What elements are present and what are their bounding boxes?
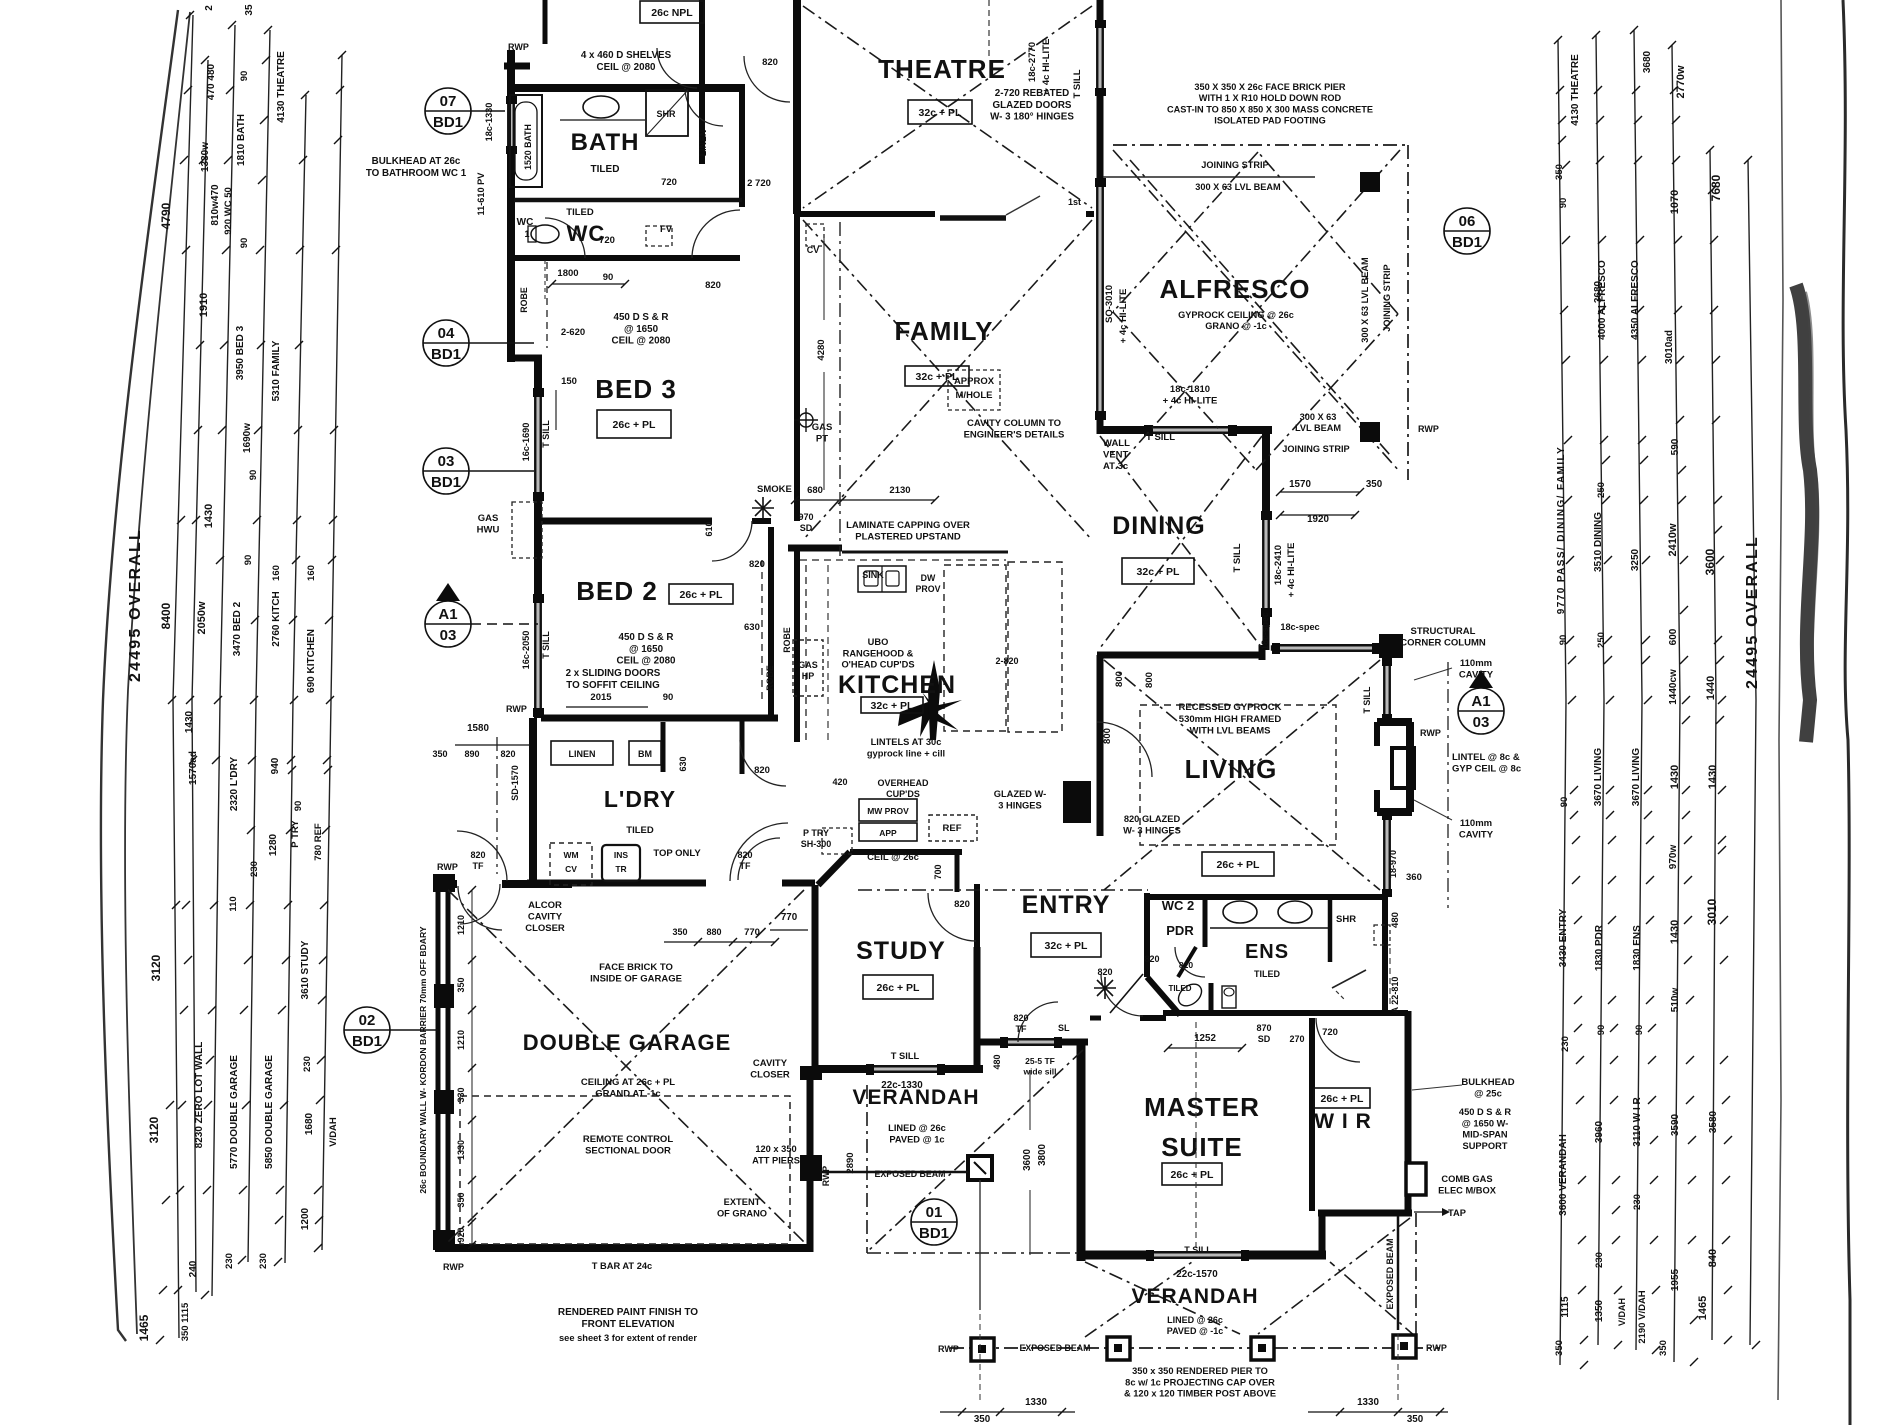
svg-text:ROBE: ROBE [519, 287, 529, 313]
svg-text:26c + PL: 26c + PL [613, 419, 656, 431]
gas pt marker family [799, 413, 813, 427]
svg-text:EXPOSED BEAM: EXPOSED BEAM [875, 1169, 946, 1179]
dimension ticks right [1554, 36, 1562, 44]
window end block [1241, 1250, 1249, 1261]
ceiling line [1104, 660, 1380, 890]
svg-text:SINK: SINK [862, 570, 884, 580]
svg-text:EXPOSED BEAM: EXPOSED BEAM [1385, 1239, 1395, 1310]
FV dashed box [646, 226, 672, 246]
window end block [533, 492, 544, 501]
svg-text:90: 90 [248, 470, 259, 481]
wall ldry south front b [782, 880, 815, 887]
svg-text:03: 03 [440, 627, 457, 644]
svg-text:W- 3 HINGES: W- 3 HINGES [1123, 825, 1181, 835]
svg-text:WC: WC [517, 217, 534, 228]
svg-text:TF: TF [740, 861, 751, 871]
svg-text:3800: 3800 [1037, 1144, 1048, 1166]
ceiling line [448, 890, 804, 1242]
dimension ticks left [186, 11, 194, 19]
wall ens east [1382, 893, 1388, 1013]
svg-text:@ 1650: @ 1650 [629, 644, 664, 655]
front verandah west edge [866, 1085, 868, 1253]
wall linen west [699, 0, 705, 164]
svg-text:2-620: 2-620 [561, 327, 585, 338]
svg-text:1430: 1430 [1669, 920, 1681, 944]
svg-text:610: 610 [704, 521, 714, 536]
svg-text:WM: WM [563, 850, 578, 860]
svg-text:230: 230 [224, 1253, 235, 1269]
exposed beam front [820, 1171, 968, 1174]
svg-text:RWP: RWP [938, 1344, 959, 1354]
svg-text:OVERHEAD: OVERHEAD [877, 778, 929, 788]
ceiling label theatre [908, 100, 972, 124]
svg-text:530mm HIGH FRAMED: 530mm HIGH FRAMED [1179, 714, 1282, 725]
REF dashed box [929, 815, 977, 841]
svg-text:2-820: 2-820 [995, 656, 1018, 666]
svg-text:& 120 x 120 TIMBER POST ABOVE: & 120 x 120 TIMBER POST ABOVE [1124, 1389, 1276, 1399]
svg-text:SHR: SHR [1336, 914, 1356, 925]
svg-text:P TRY: P TRY [803, 828, 829, 838]
svg-text:1465: 1465 [137, 1314, 151, 1341]
dimension line right R5 [1710, 150, 1716, 1340]
svg-text:26c + PL: 26c + PL [1217, 859, 1260, 871]
svg-text:LVL BEAM: LVL BEAM [1295, 423, 1341, 433]
svg-text:2 720: 2 720 [747, 178, 771, 189]
front verandah pier [974, 1162, 986, 1174]
wall divider stub east [1086, 211, 1098, 217]
svg-text:3600 VERANDAH: 3600 VERANDAH [1558, 1134, 1569, 1216]
svg-text:RWP: RWP [1426, 1343, 1447, 1353]
detail bubble 04/BD1 [423, 320, 469, 366]
ceiling line [1085, 1262, 1240, 1334]
svg-text:TO BATHROOM WC 1: TO BATHROOM WC 1 [366, 168, 467, 179]
svg-text:BD1: BD1 [431, 474, 461, 491]
wall ldry west [529, 718, 537, 883]
svg-text:3430 ENTRY: 3430 ENTRY [1558, 908, 1569, 967]
wall ldry closet divider [661, 722, 666, 772]
ceiling line [1258, 152, 1398, 314]
door entry front [1018, 1002, 1058, 1042]
ceiling line [858, 889, 1148, 891]
window 18c-spec living north-east [1272, 644, 1378, 646]
alfresco pier NE [1360, 422, 1380, 442]
kitchen island dashed [944, 565, 1006, 731]
dimension line left L5 [285, 95, 306, 1263]
svg-text:450 D S & R: 450 D S & R [1459, 1107, 1511, 1117]
svg-text:240: 240 [188, 1260, 199, 1277]
svg-text:CV: CV [565, 864, 577, 874]
svg-text:870: 870 [1256, 1023, 1271, 1033]
svg-text:3250: 3250 [1630, 548, 1641, 571]
ceiling line [1258, 1218, 1410, 1334]
svg-text:03: 03 [1473, 714, 1490, 731]
ceiling label kitchen [861, 697, 923, 713]
svg-text:5310 FAMILY: 5310 FAMILY [271, 340, 282, 401]
svg-text:RWP: RWP [437, 862, 458, 872]
svg-text:DW: DW [921, 573, 936, 583]
svg-text:7680: 7680 [1709, 174, 1723, 201]
svg-text:RWP: RWP [1420, 728, 1441, 738]
svg-text:PDR: PDR [1166, 923, 1194, 938]
svg-text:CAST-IN TO 850 X 850 X 300 MAS: CAST-IN TO 850 X 850 X 300 MASS CONCRETE [1167, 104, 1373, 114]
svg-text:18c-1330: 18c-1330 [484, 103, 494, 142]
svg-text:820: 820 [1013, 1013, 1028, 1023]
svg-text:350: 350 [1554, 164, 1565, 180]
wall pdr diagonal [1147, 977, 1180, 1015]
svg-text:2410w: 2410w [1667, 523, 1679, 556]
svg-text:2760 KITCH: 2760 KITCH [271, 591, 282, 647]
svg-text:90: 90 [293, 801, 304, 812]
svg-text:1910: 1910 [198, 293, 210, 317]
svg-text:PT: PT [816, 434, 828, 445]
detail bubble 07/BD1 [425, 88, 471, 134]
window end block [506, 146, 517, 154]
svg-text:470 480: 470 480 [206, 63, 217, 100]
window end block [1228, 425, 1237, 436]
svg-text:250: 250 [1596, 632, 1607, 648]
svg-text:EXTENT: EXTENT [724, 1197, 761, 1207]
svg-text:18c-spec: 18c-spec [1260, 612, 1270, 650]
svg-text:3600: 3600 [1703, 548, 1717, 575]
svg-text:BED 2: BED 2 [576, 576, 658, 606]
windows [506, 100, 516, 150]
svg-text:450 D S & R: 450 D S & R [619, 632, 674, 643]
wall living east nook bottom [1377, 808, 1412, 816]
wall divider stub [752, 518, 771, 524]
svg-text:W I R: W I R [1314, 1110, 1372, 1133]
svg-text:90: 90 [603, 272, 614, 283]
svg-text:2770w: 2770w [1675, 65, 1687, 98]
svg-text:230: 230 [1560, 1036, 1571, 1052]
garage extent of grano dashed [460, 1096, 790, 1244]
svg-text:ATT PIERS: ATT PIERS [752, 1155, 800, 1165]
svg-text:3600: 3600 [1022, 1149, 1033, 1171]
door garage alcove [458, 886, 502, 930]
svg-text:840: 840 [1707, 1249, 1719, 1267]
wall ens wc stub [1209, 983, 1214, 1013]
wall hall west upper [974, 884, 980, 950]
window end block [1261, 608, 1272, 617]
wall west exterior bath section [507, 50, 515, 362]
svg-text:SQ-3010: SQ-3010 [1104, 285, 1115, 323]
window 18c-1330 bath [507, 100, 509, 150]
svg-text:CV: CV [807, 245, 820, 255]
door swing theatre [1006, 196, 1040, 215]
svg-text:1430: 1430 [184, 710, 195, 733]
svg-text:920: 920 [456, 1227, 466, 1242]
svg-text:510w: 510w [1670, 988, 1681, 1013]
wall master west / porch [1077, 1042, 1086, 1261]
svg-text:MID-SPAN: MID-SPAN [1462, 1130, 1508, 1140]
svg-text:LINTELS AT 30c: LINTELS AT 30c [871, 737, 942, 747]
door hall-ldry [740, 740, 786, 786]
wall kitchen north segment [788, 545, 842, 552]
svg-text:700: 700 [933, 864, 943, 879]
gas hp dashed box [793, 640, 823, 696]
dashed theatre line [988, 0, 990, 58]
window 18c-2410 dining east [1262, 515, 1264, 612]
svg-text:T SILL: T SILL [541, 420, 551, 448]
svg-text:CAVITY: CAVITY [1459, 830, 1494, 841]
svg-text:T SILL: T SILL [1146, 432, 1175, 443]
svg-text:O'HEAD CUP'DS: O'HEAD CUP'DS [841, 660, 914, 670]
window end block [1095, 20, 1106, 28]
wall family east segment [1097, 92, 1104, 182]
svg-text:BD1: BD1 [431, 346, 461, 363]
svg-text:HP: HP [802, 671, 815, 681]
svg-text:07: 07 [440, 93, 457, 110]
svg-text:350: 350 [1658, 1340, 1669, 1356]
svg-text:DOUBLE GARAGE: DOUBLE GARAGE [523, 1030, 732, 1055]
wall alfresco south / dining north [1097, 426, 1272, 434]
svg-text:REF: REF [943, 823, 962, 834]
svg-text:820: 820 [1179, 960, 1193, 970]
wall wc2 west [1144, 893, 1150, 977]
svg-text:TILED: TILED [591, 164, 620, 175]
svg-text:820: 820 [754, 765, 770, 776]
svg-text:350 x 350 RENDERED PIER TO: 350 x 350 RENDERED PIER TO [1132, 1366, 1268, 1376]
svg-text:880: 880 [706, 927, 721, 937]
svg-text:SHR: SHR [656, 109, 676, 119]
kitchen upstand dashed [800, 559, 1006, 561]
rear verandah south edge [950, 1347, 1440, 1349]
svg-text:UBO: UBO [868, 637, 889, 647]
svg-text:630: 630 [678, 756, 688, 771]
svg-text:350: 350 [1366, 479, 1383, 490]
svg-text:SD: SD [1258, 1034, 1271, 1044]
svg-text:ISOLATED PAD FOOTING: ISOLATED PAD FOOTING [1214, 116, 1325, 126]
svg-text:1920: 1920 [1307, 514, 1329, 525]
wall master/wir divider [1309, 1018, 1315, 1211]
ceiling line [803, 6, 1092, 208]
svg-text:01: 01 [926, 1204, 943, 1221]
svg-text:4280: 4280 [816, 339, 827, 360]
door master entry [1101, 974, 1143, 1016]
svg-text:1580: 1580 [467, 723, 489, 734]
wall living east nook stub b [1374, 790, 1380, 812]
svg-text:360: 360 [1406, 872, 1422, 883]
dimension line right R3 [1634, 30, 1642, 1350]
window 18c-2770 theatre east [1096, 24, 1098, 92]
svg-text:DINING: DINING [1112, 512, 1206, 540]
svg-text:BD1: BD1 [352, 1033, 382, 1050]
svg-text:T SILL: T SILL [1184, 1245, 1212, 1255]
svg-text:890: 890 [464, 749, 479, 759]
svg-text:TF: TF [473, 861, 484, 871]
svg-text:CEIL @ 2080: CEIL @ 2080 [612, 336, 671, 347]
door wir [1316, 1018, 1360, 1062]
svg-text:M/HOLE: M/HOLE [956, 390, 993, 401]
bottom dim line left [940, 1411, 1075, 1413]
svg-text:2320 L'DRY: 2320 L'DRY [229, 757, 240, 812]
wall bed2 south / ldry north [541, 715, 778, 722]
alfresco pier SE [971, 1338, 994, 1361]
svg-text:PLASTERED UPSTAND: PLASTERED UPSTAND [855, 532, 961, 543]
svg-text:300 X 63 LVL BEAM: 300 X 63 LVL BEAM [1195, 182, 1281, 192]
svg-text:2050w: 2050w [196, 601, 208, 634]
svg-text:3680: 3680 [1642, 50, 1653, 73]
svg-text:420: 420 [832, 777, 847, 787]
shower bath [646, 90, 688, 136]
door alcove [457, 831, 507, 881]
window end block [1272, 643, 1280, 654]
kitchen appliance dashed [1008, 562, 1062, 732]
window end block [1054, 1037, 1062, 1048]
detail bubble 06/BD1 [1444, 208, 1490, 254]
svg-text:GAS: GAS [478, 513, 499, 524]
wall stub top edge [543, 0, 548, 44]
wall garage east [807, 1072, 814, 1252]
window living east upper [1383, 662, 1385, 718]
kitchen bench west dashed [805, 565, 807, 740]
wall theatre west [793, 0, 801, 214]
svg-text:ROBE: ROBE [782, 627, 792, 653]
svg-text:820: 820 [1097, 967, 1112, 977]
svg-text:RWP: RWP [443, 1262, 464, 1272]
svg-text:FAMILY: FAMILY [895, 316, 994, 346]
svg-text:GYPROCK CEILING @ 26c: GYPROCK CEILING @ 26c [1178, 310, 1294, 320]
svg-text:300 X 63 LVL BEAM: 300 X 63 LVL BEAM [1360, 257, 1370, 343]
svg-text:25-5 TF: 25-5 TF [1025, 1056, 1055, 1066]
svg-text:02: 02 [359, 1012, 376, 1029]
wall living north [1097, 652, 1262, 659]
svg-text:see sheet 3 for extent of rend: see sheet 3 for extent of render [559, 1333, 697, 1343]
svg-text:CEIL @ 26c: CEIL @ 26c [867, 852, 919, 863]
svg-text:1690w: 1690w [242, 423, 253, 453]
wall study east [974, 947, 981, 1072]
svg-text:VENT: VENT [1103, 450, 1129, 461]
shower screen diagonal [1332, 970, 1366, 988]
kitchen sink box [858, 566, 906, 592]
svg-text:GAS: GAS [798, 660, 818, 670]
garage pier E [800, 1066, 822, 1080]
svg-text:970w: 970w [1668, 845, 1679, 870]
svg-text:350: 350 [456, 1192, 466, 1207]
svg-text:940: 940 [270, 757, 281, 774]
ceiling line [1130, 160, 1390, 455]
wall bed2 robe [768, 527, 774, 718]
living recessed gyprock dashed [1140, 705, 1336, 845]
svg-text:26c + PL: 26c + PL [680, 589, 723, 601]
svg-text:BULKHEAD AT 26c: BULKHEAD AT 26c [372, 156, 461, 167]
window sidelight entry [1004, 1038, 1058, 1040]
svg-text:WITH LVL BEAMS: WITH LVL BEAMS [1190, 726, 1271, 737]
ref dashed [822, 828, 852, 854]
dimension line right R4 [1672, 45, 1680, 1362]
svg-text:120 x 350: 120 x 350 [755, 1144, 796, 1154]
svg-text:8c w/ 1c PROJECTING CAP OVER: 8c w/ 1c PROJECTING CAP OVER [1125, 1377, 1275, 1387]
svg-text:16c-1690: 16c-1690 [521, 423, 531, 462]
door ldry front [738, 838, 780, 880]
svg-text:3110 W I R: 3110 W I R [1632, 1096, 1643, 1146]
svg-text:1210: 1210 [456, 1030, 466, 1050]
ceiling line [867, 1050, 1083, 1252]
window end block [533, 594, 544, 603]
door bed3 [692, 210, 740, 258]
window 16c-1690 bed3 [534, 392, 536, 496]
dimension line left L1 [173, 15, 193, 1338]
svg-text:LINTEL @ 8c &: LINTEL @ 8c & [1452, 752, 1520, 763]
svg-text:1210: 1210 [456, 915, 466, 935]
svg-text:230: 230 [302, 1056, 313, 1072]
window end block [1372, 643, 1380, 654]
svg-text:230: 230 [1594, 1252, 1605, 1268]
svg-text:SD: SD [800, 523, 813, 533]
dimension line left L2 [192, 60, 208, 1292]
svg-text:450 D S & R: 450 D S & R [614, 312, 669, 323]
svg-text:3510 DINING: 3510 DINING [1593, 512, 1604, 572]
svg-text:FV: FV [660, 224, 673, 235]
ceiling line [1330, 1262, 1416, 1337]
svg-text:18-970: 18-970 [1388, 850, 1398, 878]
svg-text:T SILL: T SILL [1232, 543, 1243, 572]
front verandah south edge [867, 1252, 1081, 1254]
svg-text:32c + PL: 32c + PL [1045, 940, 1088, 952]
ceiling line [1113, 150, 1400, 472]
wall living east nook right [1406, 722, 1414, 812]
svg-text:110mm: 110mm [1460, 818, 1492, 829]
svg-text:32c + PL: 32c + PL [871, 700, 914, 712]
wall wc south / bed3 north [514, 255, 740, 261]
svg-text:+ 4c HI-LITE: + 4c HI-LITE [1163, 396, 1218, 407]
svg-text:90: 90 [1558, 635, 1569, 646]
svg-text:2015: 2015 [590, 692, 612, 703]
door linen top [657, 48, 697, 88]
svg-text:COMB GAS: COMB GAS [1441, 1174, 1492, 1184]
svg-text:WITH 1 X R10 HOLD DOWN ROD: WITH 1 X R10 HOLD DOWN ROD [1199, 93, 1342, 103]
svg-text:JOINING STRIP: JOINING STRIP [1382, 264, 1392, 331]
svg-text:720: 720 [1322, 1027, 1338, 1038]
svg-text:3670 LIVING: 3670 LIVING [1631, 748, 1642, 807]
svg-text:TAP: TAP [1448, 1208, 1466, 1218]
window end block [533, 388, 544, 397]
svg-text:T SILL: T SILL [541, 631, 551, 659]
svg-text:BULKHEAD: BULKHEAD [1461, 1077, 1514, 1088]
garage dim line [471, 890, 473, 1245]
ceiling line [1113, 152, 1258, 312]
wall front entry right [1060, 1039, 1088, 1046]
exposed beam right [1397, 1216, 1400, 1330]
svg-text:2190 V/DAH: 2190 V/DAH [1637, 1290, 1648, 1343]
svg-text:KITCHEN: KITCHEN [838, 671, 956, 699]
svg-text:L'DRY: L'DRY [604, 786, 676, 812]
svg-text:MW PROV: MW PROV [867, 806, 909, 816]
window end block [1146, 1250, 1154, 1261]
svg-text:24495 OVERALL: 24495 OVERALL [1744, 535, 1761, 689]
svg-text:1200: 1200 [300, 1207, 311, 1230]
wall ldry south front a [527, 880, 706, 887]
svg-text:350: 350 [1554, 1340, 1565, 1356]
svg-text:90: 90 [1559, 797, 1570, 808]
svg-text:WC 2: WC 2 [1162, 898, 1195, 913]
door wc arc [545, 218, 585, 258]
svg-text:1330: 1330 [1357, 1397, 1379, 1408]
svg-text:GRAND AT -1c: GRAND AT -1c [595, 1089, 660, 1100]
window end block [1000, 1037, 1008, 1048]
svg-text:5770 DOUBLE GARAGE: 5770 DOUBLE GARAGE [229, 1055, 240, 1169]
wall hall stub [740, 718, 745, 774]
wall living east nook stub a [1374, 722, 1380, 746]
svg-text:CEIL @ 2080: CEIL @ 2080 [617, 656, 676, 667]
svg-text:1430: 1430 [203, 504, 215, 528]
svg-text:26c NPL: 26c NPL [651, 7, 693, 19]
svg-text:90: 90 [1558, 198, 1569, 209]
svg-text:LAMINATE CAPPING OVER: LAMINATE CAPPING OVER [846, 520, 970, 531]
zero lot dash-dot ldry [496, 737, 498, 874]
window end block [1095, 411, 1106, 420]
app box [859, 823, 917, 841]
wall master SE step [1319, 1211, 1326, 1258]
